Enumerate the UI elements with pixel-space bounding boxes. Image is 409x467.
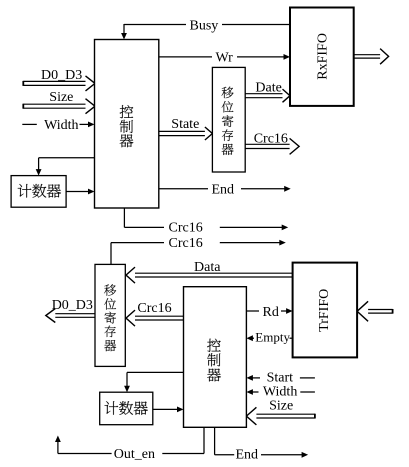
svg-text:Width: Width	[44, 118, 78, 133]
svg-text:Rd: Rd	[263, 305, 279, 320]
svg-text:Size: Size	[49, 90, 73, 105]
svg-text:Size: Size	[269, 399, 293, 414]
svg-text:End: End	[212, 182, 235, 197]
svg-text:Crc16: Crc16	[137, 301, 171, 316]
svg-text:Out_en: Out_en	[114, 447, 155, 462]
svg-text:Busy: Busy	[190, 19, 219, 34]
svg-text:Crc16: Crc16	[169, 236, 203, 251]
svg-text:Crc16: Crc16	[169, 221, 203, 236]
svg-text:Start: Start	[267, 370, 294, 385]
svg-text:Empty: Empty	[255, 330, 290, 345]
svg-text:State: State	[171, 117, 199, 132]
svg-text:Wr: Wr	[216, 51, 234, 66]
svg-text:End: End	[236, 448, 259, 463]
svg-text:D0_D3: D0_D3	[52, 298, 93, 313]
svg-text:Data: Data	[194, 260, 221, 275]
svg-text:Width: Width	[263, 385, 297, 400]
svg-text:RxFIFO: RxFIFO	[316, 33, 331, 80]
svg-text:TrFIFO: TrFIFO	[317, 289, 332, 332]
